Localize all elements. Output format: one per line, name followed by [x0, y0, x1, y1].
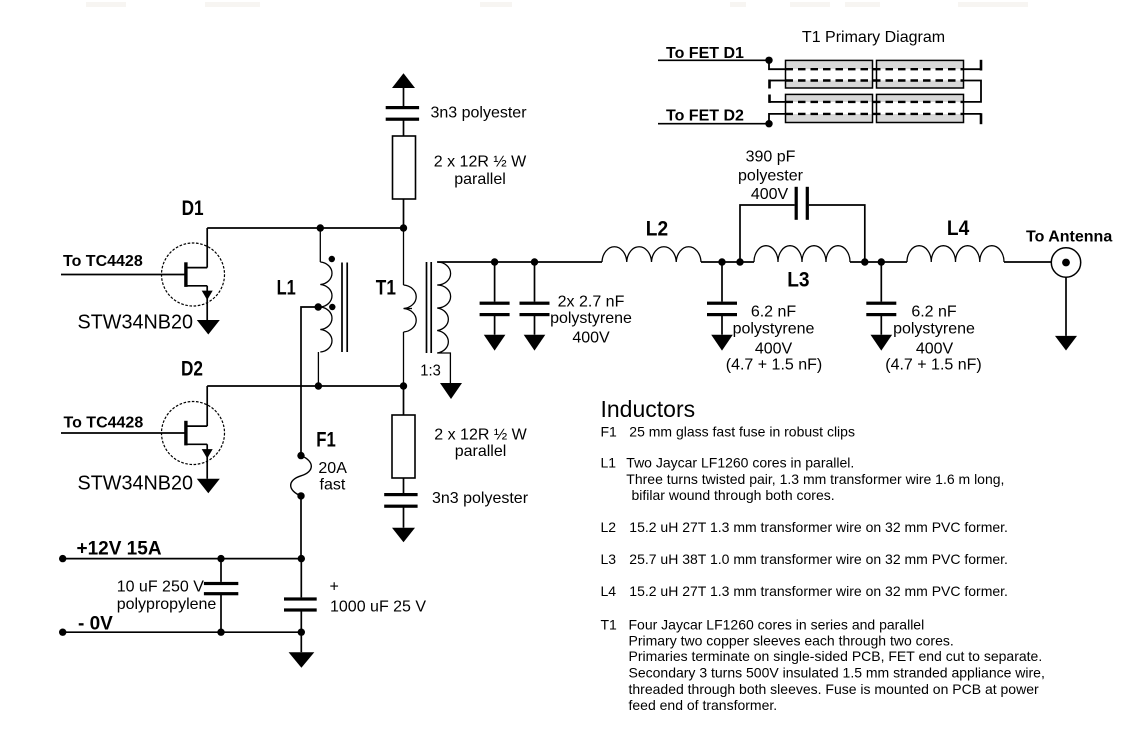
svg-text:polypropylene: polypropylene: [117, 596, 217, 613]
L1 phase dot middle: [329, 304, 335, 310]
svg-text:To FET D2: To FET D2: [666, 107, 744, 124]
wire D left connector: [769, 114, 786, 124]
T1 core lower-left (copper sleeve): [786, 94, 873, 122]
note L3: [601, 551, 1008, 567]
terminal dot +12V: [59, 555, 66, 562]
svg-text:390 pF: 390 pF: [746, 149, 796, 166]
junction +12V / fuse: [298, 555, 305, 562]
svg-text:Inductors: Inductors: [601, 396, 696, 422]
svg-text:polystyrene: polystyrene: [893, 321, 975, 338]
note T1: [601, 617, 1045, 714]
wire To FET D1: [658, 59, 769, 61]
wire L1 centre tap to fuse: [301, 307, 318, 456]
wire fuse to +12V rail: [300, 496, 302, 559]
primary wire B (dashed through sleeves): [786, 79, 964, 81]
svg-text:Two Jaycar LF1260 cores in par: Two Jaycar LF1260 cores in parallel.: [626, 455, 854, 471]
primary wire A (dashed through sleeves): [786, 68, 964, 70]
capacitor C 2.7nF b: [520, 262, 550, 351]
inductor L1 winding: [318, 228, 332, 386]
svg-text:L4: L4: [601, 583, 617, 599]
svg-text:10 uF 250 V: 10 uF 250 V: [117, 579, 205, 596]
svg-text:L3: L3: [787, 268, 809, 292]
wire to antenna: [1004, 261, 1051, 263]
svg-text:15.2 uH 27T 1.3 mm transformer: 15.2 uH 27T 1.3 mm transformer wire on 3…: [629, 519, 1008, 535]
svg-text:400V: 400V: [916, 341, 954, 358]
svg-text:25.7 uH 38T 1.0 mm transformer: 25.7 uH 38T 1.0 mm transformer wire on 3…: [629, 551, 1008, 567]
wire +12V rail: [63, 558, 302, 560]
svg-text:- 0V: - 0V: [78, 614, 113, 635]
junction top rail / L1: [317, 224, 324, 231]
svg-text:L2: L2: [601, 519, 617, 535]
svg-text:L4: L4: [947, 216, 969, 240]
antenna connector: [1051, 248, 1080, 277]
svg-text:400V: 400V: [751, 186, 789, 203]
junction bottom rail / T1: [400, 382, 407, 389]
svg-text:D1: D1: [182, 196, 204, 220]
wire To FET D2: [658, 123, 769, 125]
T1 core lower-right (copper sleeve): [877, 94, 964, 122]
ground below bottom 3n3: [392, 528, 415, 543]
capacitor 3n3 polyester (top): [386, 106, 419, 121]
svg-text:Secondary 3 turns 500V insulat: Secondary 3 turns 500V insulated 1.5 mm …: [629, 665, 1045, 681]
svg-text:T1: T1: [601, 617, 618, 633]
svg-text:To TC4428: To TC4428: [64, 415, 144, 432]
svg-text:2x 2.7 nF: 2x 2.7 nF: [558, 294, 625, 311]
ground below T1 secondary: [440, 383, 462, 399]
wire D1 gate: [61, 274, 185, 276]
transformer T1 primary winding: [404, 228, 417, 386]
junction C4: [878, 258, 885, 265]
svg-text:bifilar wound through both cor: bifilar wound through both cores.: [632, 487, 835, 503]
svg-text:3n3 polyester: 3n3 polyester: [430, 105, 527, 122]
wire: [701, 261, 754, 263]
wire: [403, 508, 405, 528]
capacitor 3n3 polyester (bottom): [384, 493, 417, 508]
wire bottom rail (D2 drain to T1): [207, 385, 403, 387]
fuse F1: [291, 452, 312, 500]
svg-text:F1: F1: [601, 423, 618, 439]
svg-text:T1 Primary Diagram: T1 Primary Diagram: [802, 29, 945, 46]
svg-text:parallel: parallel: [455, 443, 507, 460]
wire top rail (D1 drain to T1): [207, 227, 403, 229]
wire D1 source down: [206, 286, 208, 320]
note L1: [601, 455, 1005, 504]
junction FET D2: [765, 120, 772, 127]
ground below antenna: [1055, 336, 1077, 351]
svg-text:fast: fast: [320, 477, 346, 494]
ground below 0V rail: [289, 652, 315, 668]
T1 core upper-right (copper sleeve): [877, 60, 964, 88]
svg-text:Three turns twisted pair, 1.3: Three turns twisted pair, 1.3 mm transfo…: [626, 471, 1004, 487]
svg-text:threaded through both sleeves.: threaded through both sleeves. Fuse is m…: [629, 681, 1039, 697]
junction FET D1: [765, 57, 772, 64]
T1 core lines: [427, 262, 432, 353]
svg-text:T1: T1: [376, 275, 396, 299]
capacitor 390 pF bypass: [740, 187, 865, 262]
svg-text:400V: 400V: [755, 341, 793, 358]
wire 0V to ground: [300, 632, 302, 652]
capacitor 1000 uF 25 V electrolytic: [284, 559, 317, 633]
wire D2 source down: [206, 444, 208, 479]
svg-text:2 x 12R ½ W: 2 x 12R ½ W: [434, 427, 527, 444]
primary wire C (dashed through sleeves): [786, 101, 964, 103]
primary wire D (dashed through sleeves): [786, 113, 964, 115]
svg-text:L3: L3: [601, 551, 617, 567]
svg-text:Primary two copper sleeves eac: Primary two copper sleeves each through …: [629, 632, 954, 648]
svg-text:25 mm glass fast fuse in robus: 25 mm glass fast fuse in robust clips: [629, 423, 855, 439]
svg-text:To FET D1: To FET D1: [666, 45, 744, 62]
svg-text:1000 uF 25 V: 1000 uF 25 V: [330, 599, 426, 616]
svg-text:400V: 400V: [572, 330, 610, 347]
wire: [403, 88, 405, 106]
svg-text:D2: D2: [181, 357, 203, 381]
svg-text:feed end of transformer.: feed end of transformer.: [629, 697, 778, 713]
note F1: [601, 423, 855, 439]
svg-text:polystyrene: polystyrene: [550, 310, 632, 327]
svg-text:15.2 uH 27T 1.3 mm transformer: 15.2 uH 27T 1.3 mm transformer wire on 3…: [629, 583, 1008, 599]
L1 core lines: [342, 263, 347, 353]
note L2: [601, 519, 1008, 535]
junction C1: [491, 258, 498, 265]
wire D right end (cut): [964, 113, 982, 124]
wire A right end (cut): [964, 60, 982, 71]
junction C2: [531, 258, 538, 265]
wire D2 gate: [61, 432, 185, 434]
wire D2 drain to bottom rail: [206, 386, 208, 426]
svg-text:(4.7 + 1.5 nF): (4.7 + 1.5 nF): [726, 357, 823, 374]
L1 centre-tap junction: [315, 303, 322, 310]
resistor 2 x 12R half W (bottom): [392, 415, 415, 478]
svg-text:STW34NB20: STW34NB20: [78, 312, 194, 334]
wire D1 drain to top rail: [206, 228, 208, 268]
ground below D2 source: [197, 479, 220, 494]
svg-text:3n3 polyester: 3n3 polyester: [432, 490, 529, 507]
terminal dot 0V: [59, 629, 66, 636]
note L4: [601, 583, 1008, 599]
capacitor C3 6.2nF: [707, 262, 737, 351]
transistor D1 (STW34NB20 MOSFET): [162, 243, 225, 306]
junction 0V / 10uF: [217, 629, 224, 636]
wire T1 secondary output line: [437, 261, 602, 263]
wire 0V rail: [63, 631, 302, 633]
svg-text:STW34NB20: STW34NB20: [78, 473, 194, 495]
wire: [403, 478, 405, 493]
svg-text:polystyrene: polystyrene: [733, 321, 815, 338]
junction 390pF right leg: [861, 258, 868, 265]
svg-text:(4.7 + 1.5 nF): (4.7 + 1.5 nF): [885, 357, 982, 374]
transistor D2 (STW34NB20 MOSFET): [162, 402, 225, 465]
svg-text:Four Jaycar LF1260 cores in se: Four Jaycar LF1260 cores in series and p…: [629, 617, 925, 633]
junction 390pF left leg: [736, 258, 743, 265]
ground below D1 source: [197, 320, 220, 335]
svg-text:F1: F1: [316, 428, 336, 452]
svg-text:L1: L1: [277, 275, 296, 299]
svg-text:2 x 12R ½ W: 2 x 12R ½ W: [434, 154, 527, 171]
wires B-C right connector: [964, 81, 982, 102]
svg-text:parallel: parallel: [454, 171, 506, 188]
capacitor 10 uF 250 V polypropylene: [204, 559, 238, 633]
junction +12V / 10uF: [217, 555, 224, 562]
svg-text:L1: L1: [601, 455, 617, 471]
svg-text:+: +: [330, 579, 339, 596]
svg-text:To Antenna: To Antenna: [1026, 228, 1112, 245]
svg-text:6.2 nF: 6.2 nF: [751, 304, 797, 321]
wire: [403, 121, 405, 137]
junction top rail / T1: [400, 224, 407, 231]
resistor 2 x 12R half W (top): [393, 136, 416, 199]
wire T1 to bottom resistor: [403, 386, 405, 415]
svg-text:+12V 15A: +12V 15A: [77, 539, 162, 560]
svg-text:1:3: 1:3: [420, 363, 441, 380]
wire antenna to ground: [1065, 277, 1067, 336]
inductor L3: [754, 246, 850, 262]
junction bottom rail / L1: [315, 382, 322, 389]
wire A left connector: [769, 60, 786, 69]
svg-text:L2: L2: [646, 217, 668, 241]
svg-text:20A: 20A: [318, 460, 347, 477]
wire: [850, 261, 907, 263]
inductor L2: [602, 247, 701, 262]
transformer T1 secondary winding: [437, 262, 450, 383]
capacitor C4 6.2nF: [866, 262, 896, 351]
svg-text:6.2 nF: 6.2 nF: [911, 304, 957, 321]
T1 core upper-left (copper sleeve): [786, 60, 873, 88]
inductor L4: [907, 246, 1004, 262]
capacitor C 2.7nF a: [480, 262, 510, 351]
L1 phase dot top: [329, 256, 335, 262]
svg-text:polyester: polyester: [738, 168, 804, 185]
arrow up (top of snubber chain): [392, 73, 415, 88]
wires B-C left connector (dashed vertical): [770, 80, 786, 103]
wire resistor to node: [403, 199, 405, 228]
svg-text:To TC4428: To TC4428: [63, 253, 143, 270]
svg-text:Primaries terminate on single-: Primaries terminate on single-sided PCB,…: [629, 648, 1043, 664]
junction 0V / 1000uF: [298, 629, 305, 636]
junction C3: [718, 258, 725, 265]
